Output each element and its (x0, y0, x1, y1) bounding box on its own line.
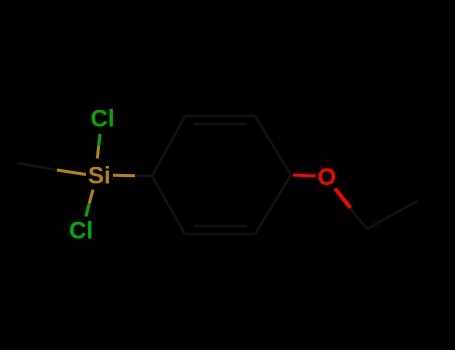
benzene ring outline (152, 116, 291, 234)
svg-text:O: O (318, 164, 337, 191)
wire: ring edge C4-C5 (255, 175, 291, 234)
wire: ring inner line top (194, 123, 247, 126)
wire: bond C4-O carbon half (289, 174, 293, 177)
wire: bond Si-Cl2 silicon half (89, 190, 93, 204)
wire: ring edge C6-C1 (152, 176, 185, 234)
wire: bond Si-C1(ring) carbon half (135, 174, 152, 177)
wire: ring edge C3-C4 (255, 116, 291, 175)
svg-text:Cl: Cl (91, 106, 115, 133)
svg-text:Cl: Cl (69, 218, 93, 245)
svg-text:Si: Si (88, 163, 111, 190)
wire: ring edge C2-C3 (double) (185, 115, 255, 118)
wire: ring edge C5-C6 (double) (185, 233, 255, 236)
wire: bond CH3-Si silicon half (57, 170, 86, 175)
wire: bond Si-Cl2 chlorine half (86, 204, 89, 217)
wire: bond O-CH2 oxygen half (335, 189, 351, 209)
wire: bond Si-Cl1 silicon half (97, 146, 98, 159)
wire: bond C4-O oxygen half (293, 175, 316, 176)
wire: ring edge C1-C2 (152, 116, 185, 176)
wire: ring inner line bottom (194, 225, 247, 228)
wire: bond Si-Cl1 chlorine half (99, 134, 100, 146)
wire: bond Si-C1(ring) silicon half (113, 174, 135, 177)
wire: bond O-CH2 carbon half (350, 208, 367, 229)
wire: bond CH2-CH3 (367, 201, 417, 229)
wire: bond CH3-Si carbon half (17, 163, 57, 170)
